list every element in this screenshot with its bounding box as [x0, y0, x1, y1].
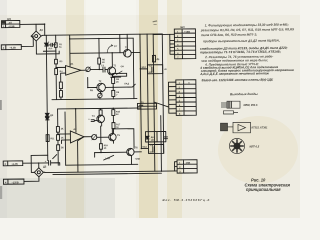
- svg-text:приборы выпрямительные Д1,: приборы выпрямительные Д1,Д2 типа КЦ405А…: [203, 38, 280, 43]
- wire X6 to bridge D2: [23, 163, 49, 168]
- transistor T3: [124, 49, 132, 57]
- wire T1 collector: [111, 53, 113, 67]
- svg-text:РВ: РВ: [90, 90, 93, 92]
- op-amp A1: [66, 65, 81, 75]
- pictogram socket spokes: [230, 139, 244, 153]
- wire channel2 bottom: [66, 163, 138, 166]
- bridge rectifier D2: [34, 168, 43, 177]
- svg-text:принципиальная: принципиальная: [246, 187, 281, 192]
- wire X2 to bridge D1: [21, 36, 33, 46]
- wire A1 output: [81, 69, 86, 71]
- pictogram transistor arrow: [238, 124, 246, 130]
- transistor T5 leads: [110, 134, 113, 141]
- zener D6 symbol: [146, 136, 149, 139]
- zener D5: [45, 43, 49, 46]
- bridge D1 inner mark: [35, 35, 38, 38]
- lighter top strip: [0, 0, 300, 15]
- wire ch2 mid row: [95, 151, 127, 153]
- wire T1 emitter: [111, 75, 121, 78]
- pictogram transistor body: [233, 122, 251, 132]
- stain left edge: [0, 0, 7, 218]
- wire opamp1 top pin: [69, 35, 71, 66]
- wire ch2 emitter tick: [104, 155, 114, 160]
- resistor R3: [55, 59, 58, 64]
- trimmer arc P: [107, 45, 112, 53]
- wire T5 collector to T6: [112, 129, 134, 149]
- stain band right of schematic: [167, 0, 182, 218]
- capacitor block C7: [140, 65, 162, 74]
- resistor R14: [57, 140, 60, 165]
- resistor R17: [112, 115, 115, 133]
- connector X3 stack: [174, 29, 195, 59]
- bridge D2 inner mark: [37, 171, 40, 174]
- svg-text:100,0: 100,0: [149, 152, 155, 154]
- connector X2 box: [1, 45, 21, 50]
- lighter mid column: [86, 0, 136, 218]
- connector X1 box: [1, 20, 19, 27]
- resistor R11: [46, 135, 49, 142]
- vertical ch1 right: [132, 38, 135, 98]
- wire channel1 bottom: [52, 99, 137, 100]
- trimmer RP3: [92, 135, 97, 140]
- horizontal part over R6: [113, 73, 127, 76]
- wire X4 bus: [168, 82, 176, 113]
- wire X3 bus: [170, 34, 175, 54]
- speck left edge upper: [0, 100, 2, 110]
- wire feed X3 row1: [153, 33, 174, 35]
- wire bottom rail: [45, 171, 177, 173]
- relay K1 body: [138, 103, 157, 109]
- zener network D6: [145, 131, 165, 142]
- transistor T2 leads: [99, 84, 102, 92]
- trimmer RP2: [98, 93, 102, 97]
- wire RP1 to C3: [90, 68, 102, 70]
- pictogram socket outer: [229, 138, 244, 153]
- wire RP2 leads: [99, 92, 102, 100]
- resistor R15: [99, 108, 102, 115]
- wire right outer rail: [162, 34, 163, 153]
- svg-text:типа СП3-4ам, R6, R10 типа: типа СП3-4ам, R6, R10 типа МЛТ-1;: [201, 33, 257, 38]
- svg-text:ОН: ОН: [121, 66, 125, 68]
- transistor T1: [108, 67, 116, 75]
- transistor T6 leads: [128, 148, 141, 164]
- wire right inner rail: [153, 34, 155, 171]
- svg-text:Ш3: Ш3: [180, 25, 185, 29]
- wire mid second bus: [147, 34, 148, 144]
- resistor R18: [99, 144, 102, 153]
- connector X6 box: [3, 161, 23, 166]
- resistor R1: [54, 35, 57, 59]
- wire bottom rail second line: [53, 173, 162, 174]
- wire X7 to bridge D2: [24, 177, 39, 182]
- svg-text:~220В: ~220В: [11, 181, 18, 184]
- wire X4 to X5 link: [160, 116, 163, 171]
- capacitor C11: [164, 137, 167, 139]
- svg-text:~0,5В: ~0,5В: [8, 25, 15, 28]
- wire ch2 left column: [57, 109, 59, 127]
- wire vertical feed T3: [119, 34, 121, 52]
- dash mark K1: [139, 105, 143, 106]
- resistor R13: [56, 132, 59, 140]
- wire left rail: [46, 35, 47, 155]
- svg-text:МБМ, К50-6: МБМ, К50-6: [244, 104, 258, 107]
- wire ch2 left boundary: [64, 112, 67, 165]
- transistor T4 leads: [98, 115, 101, 143]
- svg-text:-15В: -15В: [185, 162, 190, 165]
- wire channel2 rail: [58, 108, 141, 109]
- capacitor block C9: [141, 144, 163, 153]
- transistor T3 leads: [125, 34, 128, 55]
- op-amp A2: [70, 131, 84, 143]
- svg-text:Вос. 5М-4-452606Гц-д: Вос. 5М-4-452606Гц-д: [163, 198, 211, 202]
- svg-text:ЛАД: ЛАД: [124, 82, 129, 85]
- pictogram transistor hatched tab: [221, 123, 228, 131]
- connector X5 stack: [177, 160, 197, 173]
- trimmer RP1 arrow: [86, 67, 91, 72]
- wire D1 output bottom: [36, 41, 59, 54]
- svg-text:Завод-изг. 1123,540Е монтаж: Завод-изг. 1123,540Е монтаж платы 8(а)-1…: [201, 78, 274, 83]
- svg-text:Д2: Д2: [43, 165, 47, 169]
- wire opamp2 inputs: [58, 134, 71, 144]
- wire X4 diagonal feed: [154, 102, 169, 107]
- resistor R19: [53, 153, 95, 159]
- connector X7 box: [3, 179, 24, 184]
- svg-text:~6,3В: ~6,3В: [9, 46, 16, 49]
- connector X4 stack: [176, 80, 196, 116]
- capacitor C10: [49, 160, 60, 165]
- resistor R6: [112, 77, 115, 87]
- wire X1 to bridge D1: [20, 24, 45, 36]
- pictogram transistor leads: [228, 126, 234, 128]
- trimmer RP2 arrow: [98, 93, 102, 98]
- resistor R8: [112, 87, 115, 99]
- wire T3 row: [70, 51, 140, 54]
- wire RP3 to T5: [97, 136, 109, 138]
- wire filter node: [43, 50, 55, 52]
- bridge rectifier D1: [31, 31, 41, 41]
- transistor T5: [109, 133, 116, 140]
- capacitor C2: [46, 43, 55, 46]
- svg-text:+15В: +15В: [184, 31, 190, 34]
- wire T5 emitter: [112, 141, 114, 143]
- transistor T2: [97, 83, 106, 92]
- resistor R9: [59, 82, 62, 91]
- trimmer RP3 arrow: [92, 135, 97, 140]
- pictogram capacitor case: [227, 101, 240, 108]
- wire A2 feedback drop: [78, 137, 85, 172]
- transistor T4: [97, 115, 105, 123]
- wire T2 row: [88, 84, 136, 87]
- wire opamp1 input-: [61, 73, 66, 82]
- wire channel1 rail: [70, 37, 133, 40]
- capacitor C4: [91, 120, 97, 122]
- svg-text:Выходные диоды: Выходные диоды: [230, 92, 258, 96]
- wire mid bus: [140, 34, 141, 148]
- speck above schematic: [153, 20, 158, 22]
- svg-text:+15В: +15В: [135, 159, 141, 161]
- resistor R12: [56, 127, 59, 133]
- wire opamp2 top pin: [75, 109, 77, 133]
- pin mark X1: [2, 21, 5, 24]
- svg-text:А,В,С,Д,Е,Ё напряжение печат: А,В,С,Д,Е,Ё напряжение печатный монтаж: [199, 71, 269, 76]
- wire A2 output: [84, 136, 92, 138]
- wire T2 base feed: [87, 78, 89, 88]
- svg-text:МЛТ-0,5: МЛТ-0,5: [250, 145, 260, 148]
- resistor R10: [59, 91, 62, 100]
- svg-text:~6,3В: ~6,3В: [11, 163, 18, 166]
- pictogram capacitor hatch: [228, 101, 231, 108]
- stain band left-middle: [66, 0, 84, 218]
- svg-text:100,0: 100,0: [148, 72, 154, 74]
- wire opamp1 input+: [56, 64, 66, 69]
- diode pair D3 D4: [45, 113, 49, 120]
- pictogram resistor body: [224, 111, 239, 114]
- capacitor C3: [103, 67, 108, 72]
- stain bottom-left gray wash: [0, 178, 115, 218]
- wire T1 diagonal link: [116, 71, 122, 74]
- wire top rail: [41, 34, 162, 36]
- transistor T6: [127, 148, 134, 155]
- speck left edge lower: [0, 186, 2, 199]
- resistor R4: [55, 69, 58, 100]
- pictogram capacitor leads: [221, 103, 227, 107]
- stain blotch right-middle: [218, 116, 298, 184]
- pictogram socket inner: [234, 143, 240, 149]
- svg-text:1,5В: 1,5В: [105, 158, 110, 160]
- svg-text:КТ315, КТ361: КТ315, КТ361: [252, 127, 269, 130]
- transistor T1 leads: [109, 67, 112, 75]
- svg-text:Ш1: Ш1: [7, 17, 12, 21]
- wire bridge D2 loop: [31, 155, 48, 172]
- trimmer RP1: [86, 67, 90, 71]
- svg-text:АП: АП: [8, 22, 12, 25]
- wire X5 bus: [175, 162, 178, 171]
- resistor R16: [112, 108, 115, 115]
- junction dots: [36, 22, 162, 173]
- resistor R5: [98, 39, 101, 70]
- stain band center: [139, 0, 158, 218]
- choke Dr1: [152, 55, 155, 62]
